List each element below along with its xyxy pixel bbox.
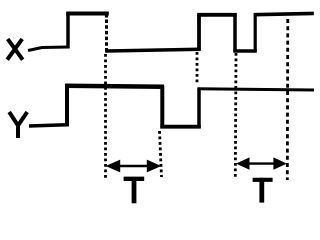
wire X falling edge 2 [233,15,237,52]
wire X low segment 3 (notch) [233,49,256,52]
wire X high segment 2 [197,13,237,17]
wire X rising edge 3 [254,15,257,51]
wire Y rising edge 1 [65,86,69,127]
wire X low segment 1 [28,47,68,51]
wire Y falling edge 1 [160,86,164,129]
label T (left interval) [124,177,145,203]
wire Y rising edge 2 [197,89,201,128]
double-headed arrow T (right) [236,157,287,169]
signal label X [7,39,23,60]
wire Y low segment 2 [160,125,201,129]
wire X rising edge 2 [197,15,201,51]
wire X rising edge 1 [66,14,70,49]
wire Y high segment 2 [197,89,314,90]
dotted reference line at X falling edge 2 [234,53,237,178]
double-headed arrow T (left) [106,160,162,173]
dashed reference line at X rising edge 3 [286,19,289,180]
wire Y high segment 1 [65,86,164,87]
wire Y low segment 1 [29,125,67,126]
dotted reference line between X rise 2 and Y rise 2 [196,52,199,84]
wire X high segment 1 [66,12,109,16]
signal label Y [9,112,27,138]
dotted reference line at Y falling edge [160,131,162,177]
wire X low segment 2 [105,49,200,51]
wire X falling edge 1 (partly eroded) [105,13,108,52]
dotted reference line at first X falling edge [104,54,107,178]
wire X high segment 3 [254,13,314,14]
label T (right interval) [253,178,273,203]
